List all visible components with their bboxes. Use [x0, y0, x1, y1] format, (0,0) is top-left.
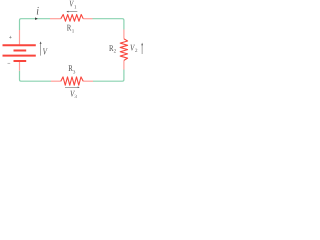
- svg-text:3: 3: [74, 94, 77, 100]
- svg-text:2: 2: [114, 49, 117, 55]
- svg-text:1: 1: [72, 28, 75, 34]
- svg-text:i: i: [36, 6, 39, 18]
- svg-text:+: +: [9, 35, 12, 41]
- svg-text:1: 1: [74, 4, 77, 10]
- svg-text:R: R: [67, 23, 72, 33]
- svg-text:−: −: [7, 61, 10, 67]
- svg-text:2: 2: [135, 48, 138, 54]
- svg-text:3: 3: [73, 69, 76, 75]
- svg-text:V: V: [43, 48, 48, 58]
